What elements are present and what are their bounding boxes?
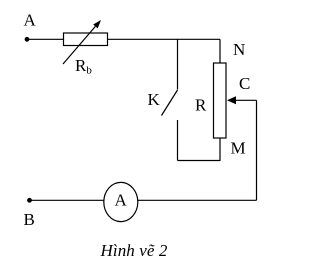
resistor R bottom lead	[219, 138, 221, 161]
svg-text:N: N	[233, 40, 245, 59]
svg-text:K: K	[148, 90, 161, 109]
svg-text:Hình vẽ 2: Hình vẽ 2	[100, 241, 168, 260]
switch K blade	[162, 90, 178, 116]
svg-text:M: M	[231, 139, 246, 158]
switch K top wire	[177, 39, 179, 89]
terminal A	[25, 37, 30, 42]
svg-text:B: B	[24, 210, 35, 229]
wire K branch bottom to R bottom	[178, 160, 221, 162]
rheostat Rb body	[64, 33, 108, 46]
svg-text:C: C	[239, 74, 250, 93]
wiper C wire	[235, 99, 257, 101]
wire ammeter to bottom-right corner	[138, 199, 257, 201]
svg-text:A: A	[24, 11, 37, 30]
svg-text:A: A	[115, 191, 128, 210]
wiper C arrowhead	[227, 96, 236, 104]
wire rheostat to top-right corner	[108, 38, 221, 40]
wire top-right corner down to R	[219, 39, 221, 63]
wire B to ammeter	[30, 199, 104, 201]
rheostat Rb arrow	[63, 20, 101, 64]
switch K bottom wire	[177, 120, 179, 161]
ammeter body	[104, 182, 138, 221]
svg-text:Rb: Rb	[75, 56, 92, 77]
resistor R body	[214, 63, 227, 138]
terminal B	[27, 198, 32, 203]
svg-text:R: R	[195, 96, 207, 115]
wire right side down	[256, 100, 258, 200]
wire A to rheostat	[27, 38, 64, 40]
